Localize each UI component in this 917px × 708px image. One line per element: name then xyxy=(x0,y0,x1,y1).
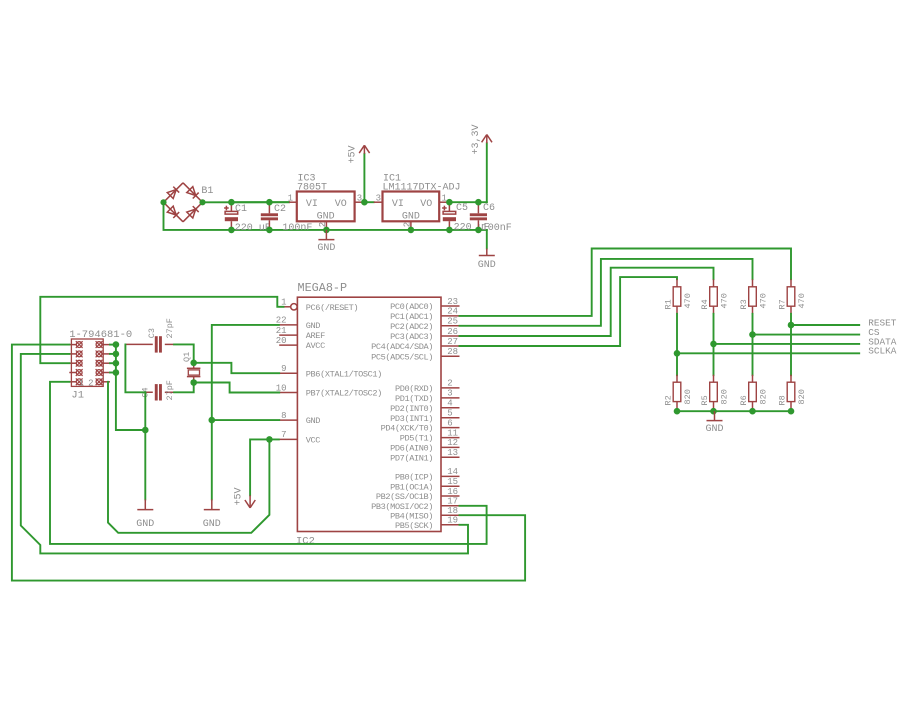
svg-text:PB5(SCK): PB5(SCK) xyxy=(395,521,433,531)
label C6 xyxy=(483,203,495,214)
svg-text:PD5(T1): PD5(T1) xyxy=(400,434,433,444)
svg-text:9: 9 xyxy=(281,364,286,374)
label R3 xyxy=(739,299,749,309)
crystal Q1 xyxy=(187,363,201,383)
svg-text:Q1: Q1 xyxy=(182,352,192,362)
svg-text:SCLKA: SCLKA xyxy=(868,346,897,357)
voltage regulator IC1 LM1117DTX-ADJ xyxy=(374,192,450,230)
svg-text:+5V: +5V xyxy=(348,145,359,163)
svg-text:R7: R7 xyxy=(778,299,788,309)
bridge rectifier B1 xyxy=(164,183,203,222)
svg-text:J1: J1 xyxy=(71,390,84,402)
wire bottom rail xyxy=(164,202,487,230)
svg-text:+5V: +5V xyxy=(234,487,245,505)
svg-text:LM1117DTX-ADJ: LM1117DTX-ADJ xyxy=(383,182,461,193)
value R2 820 xyxy=(683,389,693,404)
svg-text:19: 19 xyxy=(447,516,458,526)
svg-text:4: 4 xyxy=(447,399,452,409)
svg-text:PB2(SS/OC1B): PB2(SS/OC1B) xyxy=(376,492,433,502)
svg-text:PB7(XTAL2/TOSC2): PB7(XTAL2/TOSC2) xyxy=(306,389,382,399)
wire J1 right pin row 4 xyxy=(110,372,116,374)
wire net CS xyxy=(753,334,860,336)
pin 17 PB3(MOSI/OC2) stub xyxy=(441,505,460,507)
svg-text:13: 13 xyxy=(447,448,458,458)
pin name AREF xyxy=(306,331,325,341)
pin number 24 xyxy=(447,307,458,317)
pin name PB4(MISO) xyxy=(390,511,433,521)
pin 3 PD1(TXD) stub xyxy=(441,397,460,399)
pin name PB5(SCK) xyxy=(395,521,433,531)
pin number 22 xyxy=(276,316,287,326)
pin number 14 xyxy=(447,467,458,477)
label R1 xyxy=(664,299,674,309)
pin number 8 xyxy=(281,411,286,421)
junction net tap R3 xyxy=(749,331,756,338)
pin 27 PC4(ADC4/SDA) stub xyxy=(441,345,460,347)
pin name AVCC xyxy=(306,341,325,351)
svg-text:27pF: 27pF xyxy=(165,380,175,400)
pin name IC3 VO xyxy=(335,199,347,210)
pin number 28 xyxy=(447,347,458,357)
value R6 820 xyxy=(759,389,769,404)
pin number 10 xyxy=(276,383,287,393)
svg-text:MEGA8-P: MEGA8-P xyxy=(298,281,348,295)
svg-text:25: 25 xyxy=(447,317,458,327)
pin number 11 xyxy=(447,428,458,438)
junction GND bus corner xyxy=(142,427,149,434)
pin number 26 xyxy=(447,327,458,337)
pin name PD4(XCK/T0) xyxy=(381,424,433,434)
wire net ADC2 pin 25 to R3 xyxy=(460,259,753,326)
svg-text:15: 15 xyxy=(447,477,458,487)
svg-text:PD3(INT1): PD3(INT1) xyxy=(390,414,433,424)
resistor R3 xyxy=(749,279,757,314)
wire XTAL2 net C4 to Q1 xyxy=(174,383,194,393)
pin number 12 xyxy=(447,438,458,448)
svg-text:1: 1 xyxy=(79,378,84,388)
wire top rail segment bridge to IC3 xyxy=(203,201,290,203)
junction C6 bottom xyxy=(475,227,482,234)
pin number 25 xyxy=(447,317,458,327)
wire XTAL1 net C3 to Q1 xyxy=(174,344,194,362)
svg-text:C1: C1 xyxy=(235,204,247,215)
value R5 820 xyxy=(720,389,730,404)
pin 15 PB1(OC1A) stub xyxy=(441,485,460,487)
pin number 6 xyxy=(447,418,452,428)
label J1 xyxy=(71,390,84,402)
capacitor C3 xyxy=(125,336,174,352)
wire pin 22 GND xyxy=(212,325,279,500)
svg-text:1: 1 xyxy=(442,193,447,203)
label R2 xyxy=(664,395,674,405)
net label CS xyxy=(868,327,880,338)
wire IC1 out to +3V3 riser xyxy=(449,201,486,203)
capacitor C1 xyxy=(224,202,238,230)
pin number 13 xyxy=(447,448,458,458)
svg-text:7805T: 7805T xyxy=(297,182,327,193)
svg-text:VO: VO xyxy=(335,199,347,210)
pin name PB1(OC1A) xyxy=(390,482,433,492)
pin 4 PD2(INT0) stub xyxy=(441,407,460,409)
value C2 100nF xyxy=(282,223,312,234)
pin name PB7(XTAL2/TOSC2) xyxy=(306,389,382,399)
svg-text:470: 470 xyxy=(683,293,693,308)
pin 28 PC5(ADC5/SCL) stub xyxy=(441,355,460,357)
label R5 xyxy=(700,395,710,405)
svg-text:C5: C5 xyxy=(456,203,468,214)
value R7 470 xyxy=(797,293,807,308)
svg-text:1: 1 xyxy=(288,193,293,203)
junction C2 top xyxy=(266,199,273,206)
junction C5 top xyxy=(446,199,453,206)
wire XTAL1 net Q1 to pin 9 xyxy=(194,363,280,373)
svg-text:18: 18 xyxy=(447,506,458,516)
svg-text:12: 12 xyxy=(447,438,458,448)
pin 23 PC0(ADC0) stub xyxy=(441,305,460,307)
svg-text:VI: VI xyxy=(306,199,318,210)
svg-text:PB6(XTAL1/TOSC1): PB6(XTAL1/TOSC1) xyxy=(306,369,382,379)
label +3,3V xyxy=(471,124,482,154)
pin name PC5(ADC5/SCL) xyxy=(371,352,433,362)
svg-text:C2: C2 xyxy=(274,204,286,215)
pin name PB0(ICP) xyxy=(395,473,433,483)
connector J1 1-794681-0 xyxy=(69,339,110,386)
svg-text:C3: C3 xyxy=(147,328,157,338)
label C5 xyxy=(456,203,468,214)
label GND1 xyxy=(136,519,154,530)
junction IC3 GND xyxy=(323,227,330,234)
net label SDATA xyxy=(868,336,897,347)
wire VCC J1 to pin 7 xyxy=(108,382,279,533)
svg-text:2: 2 xyxy=(88,378,93,388)
pin number J1 2 xyxy=(88,378,93,388)
pin number 17 xyxy=(447,497,458,507)
value R1 470 xyxy=(683,293,693,308)
svg-text:26: 26 xyxy=(447,327,458,337)
pin 2 PD0(RXD) stub xyxy=(441,387,460,389)
pin 11 PD5(T1) stub xyxy=(441,437,460,439)
pin name PC2(ADC2) xyxy=(390,322,433,332)
wire net ADC1 pin 24 to R7 xyxy=(460,249,792,316)
value R8 820 xyxy=(797,389,807,404)
junction C6 top xyxy=(475,199,482,206)
svg-text:28: 28 xyxy=(447,347,458,357)
supply +3,3V arrow xyxy=(482,135,492,144)
svg-text:AVCC: AVCC xyxy=(306,341,325,351)
wire net SCLKA xyxy=(677,352,859,354)
pin 21 AREF stub xyxy=(279,334,297,336)
wire net ADC4 pin 27 to R1 xyxy=(460,277,678,346)
pin number IC3 3 xyxy=(357,193,362,203)
junction GND bus row 4 xyxy=(113,369,120,376)
svg-text:GND: GND xyxy=(317,243,335,254)
junction GND R5 xyxy=(710,408,717,415)
svg-text:PC1(ADC1): PC1(ADC1) xyxy=(390,312,433,322)
junction VCC pin7 xyxy=(266,436,273,443)
svg-text:820: 820 xyxy=(683,389,693,404)
value C1 220 uF xyxy=(235,223,271,234)
svg-text:16: 16 xyxy=(447,487,458,497)
svg-text:PC4(ADC4/SDA): PC4(ADC4/SDA) xyxy=(371,342,433,352)
junction GND R8 xyxy=(788,408,795,415)
pin number 27 xyxy=(447,337,458,347)
svg-text:3: 3 xyxy=(447,389,452,399)
pin number 20 xyxy=(276,336,287,346)
svg-text:GND: GND xyxy=(402,211,420,222)
svg-text:AREF: AREF xyxy=(306,331,325,341)
pin 22 GND stub xyxy=(279,324,297,326)
svg-text:VI: VI xyxy=(392,199,404,210)
microcontroller IC2 MEGA8-P box xyxy=(297,297,441,531)
junction bridge left xyxy=(160,199,166,205)
label IC1 xyxy=(383,174,401,185)
svg-text:220 uF: 220 uF xyxy=(235,223,271,234)
junction C5 bottom xyxy=(446,227,453,234)
svg-text:PD4(XCK/T0): PD4(XCK/T0) xyxy=(381,424,433,434)
resistor R4 xyxy=(710,279,718,314)
wire MOSI net xyxy=(50,382,487,544)
pin name IC1 VI xyxy=(392,199,404,210)
wire R3 to R6 xyxy=(752,314,754,375)
pin 1 PC6(/RESET) stub xyxy=(279,304,297,310)
ground GND1 xyxy=(137,499,153,509)
pin number 21 xyxy=(276,326,287,336)
svg-text:PD0(RXD): PD0(RXD) xyxy=(395,384,433,394)
label R4 xyxy=(700,299,710,309)
label MEGA8-P xyxy=(298,281,348,295)
junction XTAL2 xyxy=(190,379,197,386)
resistor R8 xyxy=(787,375,795,410)
wire GND bus J1 xyxy=(116,345,145,430)
svg-text:R8: R8 xyxy=(778,395,788,405)
pin name PC6(/RESET) xyxy=(306,303,358,313)
supply +5V arrow down xyxy=(245,495,255,508)
svg-text:PB0(ICP): PB0(ICP) xyxy=(395,473,433,483)
wire C6 to ground xyxy=(486,230,488,249)
svg-text:B1: B1 xyxy=(201,186,213,197)
pin number 15 xyxy=(447,477,458,487)
wire SCK net xyxy=(21,354,468,554)
label IC3 xyxy=(298,174,316,185)
svg-text:21: 21 xyxy=(276,326,287,336)
pin 25 PC2(ADC2) stub xyxy=(441,325,460,327)
label R7 xyxy=(778,299,788,309)
svg-text:27pF: 27pF xyxy=(165,318,175,338)
pin 8 GND stub xyxy=(279,419,297,421)
svg-text:2: 2 xyxy=(447,379,452,389)
pin name PD6(AIN0) xyxy=(390,444,433,454)
svg-text:PB1(OC1A): PB1(OC1A) xyxy=(390,482,433,492)
svg-text:27: 27 xyxy=(447,337,458,347)
value C4 27pF xyxy=(165,380,175,400)
pin 7 VCC stub xyxy=(279,438,297,440)
pin 6 PD4(XCK/T0) stub xyxy=(441,427,460,429)
svg-text:C6: C6 xyxy=(483,203,495,214)
svg-text:8: 8 xyxy=(281,411,286,421)
pin number 1 xyxy=(281,298,286,308)
pin number 3 xyxy=(447,389,452,399)
pin number 2 xyxy=(447,379,452,389)
label +5V xyxy=(348,145,359,163)
supply +5V arrow xyxy=(359,145,369,154)
svg-text:7: 7 xyxy=(281,430,286,440)
label GND under C6 xyxy=(478,260,496,271)
svg-text:GND: GND xyxy=(705,424,723,435)
label IC2 xyxy=(296,536,315,548)
wire VCC to +5V arrow xyxy=(250,439,269,495)
pin name IC3 GND xyxy=(317,211,335,222)
pin name PC3(ADC3) xyxy=(390,332,433,342)
svg-text:11: 11 xyxy=(447,428,458,438)
svg-text:20: 20 xyxy=(276,336,287,346)
wire R7 to R8 xyxy=(790,314,792,375)
value R3 470 xyxy=(759,293,769,308)
svg-text:100nF: 100nF xyxy=(282,223,312,234)
pin number 9 xyxy=(281,364,286,374)
pin number 7 xyxy=(281,430,286,440)
svg-text:2: 2 xyxy=(318,222,328,227)
pin name GND xyxy=(306,321,321,331)
label R6 xyxy=(739,395,749,405)
capacitor C2 xyxy=(261,202,278,230)
svg-text:3: 3 xyxy=(376,193,381,203)
net label SCLKA xyxy=(868,346,897,357)
label C1 xyxy=(235,204,247,215)
value C5 220 uF xyxy=(454,223,490,234)
junction GND bus row 3 xyxy=(113,360,120,367)
junction net tap R4 xyxy=(710,341,717,348)
junction bridge right xyxy=(199,199,205,205)
net label RESET xyxy=(868,317,897,328)
wire J1 right pin row 1 xyxy=(110,344,116,346)
pin 20 AVCC stub xyxy=(279,344,297,346)
svg-text:6: 6 xyxy=(447,418,452,428)
pin number IC1 1 xyxy=(442,193,447,203)
svg-text:470: 470 xyxy=(720,293,730,308)
pin name PB3(MOSI/OC2) xyxy=(371,502,433,512)
pin name PC1(ADC1) xyxy=(390,312,433,322)
svg-text:+3,3V: +3,3V xyxy=(471,124,482,154)
resistor R1 xyxy=(673,279,681,314)
resistor R7 xyxy=(787,279,795,314)
wire +5V tap to IC1 xyxy=(364,201,373,203)
svg-text:GND: GND xyxy=(306,416,321,426)
svg-text:2: 2 xyxy=(403,222,413,227)
junction net tap R1 xyxy=(674,350,681,357)
label C4 xyxy=(140,387,150,397)
junction GND bus row 1 xyxy=(113,341,120,348)
wire J1 right pin row 3 xyxy=(110,362,116,364)
svg-text:VCC: VCC xyxy=(306,436,321,446)
wire GND left loop C3 to C4 xyxy=(125,344,145,392)
pin 12 PD6(AIN0) stub xyxy=(441,446,460,448)
pin name PB6(XTAL1/TOSC1) xyxy=(306,369,382,379)
wire R1 to R2 xyxy=(676,314,678,375)
label Q1 xyxy=(182,352,192,362)
wire +3,3V riser xyxy=(486,143,488,202)
pin name PB2(SS/OC1B) xyxy=(376,492,433,502)
svg-text:R2: R2 xyxy=(664,395,674,405)
svg-text:R4: R4 xyxy=(700,299,710,309)
pin 24 PC1(ADC1) stub xyxy=(441,315,460,317)
pin 18 PB4(MISO) stub xyxy=(441,514,460,516)
svg-text:PD1(TXD): PD1(TXD) xyxy=(395,394,433,404)
value IC1 LM1117DTX-ADJ xyxy=(383,182,461,193)
pin number 19 xyxy=(447,516,458,526)
pin name PD2(INT0) xyxy=(390,404,433,414)
label GND resistors xyxy=(705,424,723,435)
value IC3 7805T xyxy=(297,182,327,193)
wire J1 right pin row 2 xyxy=(110,353,116,355)
svg-text:GND: GND xyxy=(136,519,154,530)
label B1 xyxy=(201,186,213,197)
svg-text:R3: R3 xyxy=(739,299,749,309)
label 1-794681-0 xyxy=(69,329,132,341)
label C2 xyxy=(274,204,286,215)
junction C1 bottom xyxy=(228,227,235,234)
wire GND line resistors xyxy=(677,410,791,412)
capacitor C6 xyxy=(470,202,487,230)
wire RESET net J1 xyxy=(40,297,283,363)
svg-text:R5: R5 xyxy=(700,395,710,405)
junction C1 top xyxy=(228,199,235,206)
svg-text:R1: R1 xyxy=(664,299,674,309)
pin number J1 1 xyxy=(79,378,84,388)
junction net tap R7 xyxy=(788,322,795,329)
junction GND bus row 2 xyxy=(113,351,120,358)
svg-text:PC5(ADC5/SCL): PC5(ADC5/SCL) xyxy=(371,352,433,362)
label +5V down xyxy=(234,487,245,505)
junction XTAL1 xyxy=(190,360,197,367)
pin name PC0(ADC0) xyxy=(390,302,433,312)
pin number IC1 3 xyxy=(376,193,381,203)
pin name GND xyxy=(306,416,321,426)
wire C1 to C2 xyxy=(231,201,289,203)
wire net SDATA xyxy=(714,343,860,345)
wire pin 8 GND xyxy=(212,419,279,421)
svg-text:PC2(ADC2): PC2(ADC2) xyxy=(390,322,433,332)
svg-text:R6: R6 xyxy=(739,395,749,405)
wire net ADC3 pin 26 to R4 xyxy=(460,268,714,336)
label GND under IC3 xyxy=(317,243,335,254)
voltage regulator IC3 7805T xyxy=(289,192,364,230)
pin number 5 xyxy=(447,409,452,419)
wire GND C4 tap down xyxy=(144,392,146,430)
svg-text:820: 820 xyxy=(797,389,807,404)
junction GND R6 xyxy=(749,408,756,415)
wire MISO net xyxy=(12,345,525,581)
junction IC1 GND xyxy=(408,227,415,234)
wire GND1 drop xyxy=(144,430,146,499)
pin number 23 xyxy=(447,297,458,307)
svg-text:PC0(ADC0): PC0(ADC0) xyxy=(390,302,433,312)
svg-text:GND: GND xyxy=(306,321,321,331)
label C3 xyxy=(147,328,157,338)
value R4 470 xyxy=(720,293,730,308)
wire net RESET xyxy=(791,324,859,326)
pin 5 PD3(INT1) stub xyxy=(441,417,460,419)
wire R4 to R5 xyxy=(713,314,715,375)
svg-text:820: 820 xyxy=(759,389,769,404)
resistor R5 xyxy=(710,375,718,410)
svg-text:VO: VO xyxy=(420,199,432,210)
svg-text:820: 820 xyxy=(720,389,730,404)
junction C2 bottom xyxy=(266,227,273,234)
svg-text:GND: GND xyxy=(317,211,335,222)
pin number IC3 1 xyxy=(288,193,293,203)
wire +5V riser xyxy=(363,154,365,202)
pin name PD0(RXD) xyxy=(395,384,433,394)
